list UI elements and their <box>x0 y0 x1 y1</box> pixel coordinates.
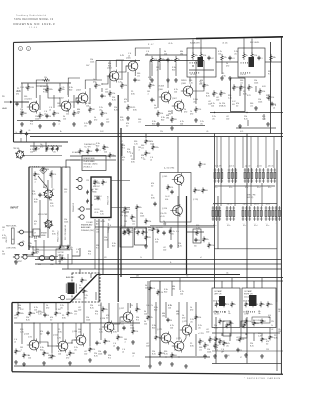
wire jacks to amp <box>54 257 56 259</box>
svg-text:2.2k: 2.2k <box>248 321 251 323</box>
svg-text:22k: 22k <box>120 215 123 217</box>
svg-text:S2 b: S2 b <box>227 225 230 227</box>
wire Q108 collector up <box>189 77 191 82</box>
svg-text:.1: .1 <box>34 182 36 184</box>
wire Q102 collector up <box>68 78 80 97</box>
svg-text:Q101: Q101 <box>27 99 32 101</box>
svg-text:8.2k: 8.2k <box>250 346 254 348</box>
svg-text:4.7k: 4.7k <box>53 174 56 176</box>
svg-text:10k: 10k <box>58 354 61 356</box>
svg-text:10k: 10k <box>2 238 5 240</box>
svg-text:R 1: R 1 <box>108 358 111 360</box>
svg-text:x2: x2 <box>14 342 16 344</box>
ground R218 <box>68 361 72 365</box>
svg-text:68k: 68k <box>273 57 276 59</box>
ground bottom right a <box>224 354 228 358</box>
resistor R296 in boxed B <box>243 322 246 328</box>
svg-text:Q 171: Q 171 <box>157 329 162 331</box>
resistor R245 in box2 <box>260 301 263 307</box>
svg-text:47k: 47k <box>16 94 19 96</box>
ground below R110 <box>88 120 92 124</box>
svg-text:EQUALIZER: EQUALIZER <box>190 42 200 45</box>
svg-text:120k: 120k <box>207 352 211 354</box>
resistor R218 <box>69 350 72 356</box>
capacitor C161 left of box <box>153 202 156 206</box>
resistor R141 left column <box>220 90 223 97</box>
svg-text:470: 470 <box>190 310 193 312</box>
junction dots bottom-left <box>47 345 48 346</box>
connector bias osc circle <box>68 283 75 295</box>
svg-text:OC613: OC613 <box>158 86 164 88</box>
svg-text:x2: x2 <box>113 346 115 348</box>
capacitor C121 in box <box>207 56 210 60</box>
svg-text:470: 470 <box>145 232 148 234</box>
bias osc dashed box <box>72 273 100 302</box>
resistor R248 <box>229 320 232 326</box>
svg-text:1k: 1k <box>140 257 142 259</box>
svg-text:1 (4.7k): 1 (4.7k) <box>224 355 230 357</box>
capacitor C102 <box>45 114 48 118</box>
ground R223 <box>116 346 120 350</box>
label box under-row left <box>252 317 270 323</box>
svg-text:22k x2: 22k x2 <box>244 296 249 298</box>
bottom-left section heavy border left <box>11 303 13 372</box>
svg-text:ADJ: ADJ <box>96 223 99 226</box>
svg-text:.1: .1 <box>138 150 140 152</box>
capacitor C122 <box>228 56 231 60</box>
ground below R123 <box>194 118 198 122</box>
svg-text:.05: .05 <box>84 298 87 300</box>
svg-text:120k: 120k <box>254 83 258 85</box>
svg-text:50: 50 <box>124 102 126 104</box>
wire bottom right rail <box>212 363 281 365</box>
output stage box 2 <box>242 288 276 328</box>
svg-text:10k: 10k <box>211 106 214 108</box>
resistor R184 <box>145 234 148 240</box>
svg-text:4.7k: 4.7k <box>104 113 107 115</box>
wire stage1 ground rail <box>17 120 60 122</box>
boxed resistor right <box>193 229 201 243</box>
svg-text:2.2k: 2.2k <box>135 331 138 333</box>
wire bias box up <box>79 269 81 274</box>
svg-text:3.3k: 3.3k <box>246 311 249 313</box>
resistor R194 <box>152 144 155 150</box>
svg-text:4.7k: 4.7k <box>268 315 271 317</box>
svg-text:1.2k: 1.2k <box>164 354 168 356</box>
svg-text:68k: 68k <box>258 311 261 313</box>
wire bus y269 <box>62 268 281 270</box>
svg-text:50: 50 <box>49 116 51 118</box>
wire right mid verticals <box>239 86 241 96</box>
svg-text:Tandberg Radiofabrikk: Tandberg Radiofabrikk <box>16 14 47 17</box>
resistor R107 <box>53 110 56 117</box>
wire bottom-middle verticals <box>147 281 149 314</box>
resistor R212 <box>55 310 58 316</box>
svg-text:470: 470 <box>40 147 43 149</box>
svg-text:(2 170): (2 170) <box>193 199 199 201</box>
svg-text:LOW LEVEL: LOW LEVEL <box>6 248 16 250</box>
wire Q171 to Q172 <box>170 341 174 344</box>
svg-text:x2: x2 <box>44 114 46 116</box>
wire Q106 to bus up <box>160 48 168 88</box>
svg-text:* DEPOSITED CARBON: * DEPOSITED CARBON <box>244 377 280 380</box>
svg-text:1.2k: 1.2k <box>271 97 274 99</box>
resistor R155 <box>87 148 90 154</box>
svg-text:1k: 1k <box>234 304 236 306</box>
svg-text:.1: .1 <box>57 106 59 108</box>
wire Q104 collector up <box>116 60 124 67</box>
wire bottom middle <box>145 356 210 358</box>
svg-text:470: 470 <box>163 224 166 226</box>
svg-text:8.2k: 8.2k <box>178 246 182 248</box>
transistor Q116 <box>102 321 114 334</box>
svg-text:1k: 1k <box>86 291 88 293</box>
transistor Q108 <box>181 85 193 98</box>
wire between boxes <box>216 61 238 63</box>
svg-text:6.8k: 6.8k <box>124 85 127 87</box>
wire box feeds <box>221 281 223 288</box>
svg-text:6.8k: 6.8k <box>62 318 66 320</box>
ground below R122 <box>170 126 174 130</box>
resistor R251 <box>261 336 264 342</box>
resistor R252 <box>269 334 272 340</box>
svg-text:.05: .05 <box>60 308 63 310</box>
svg-text:1.2k: 1.2k <box>20 332 24 334</box>
svg-text:1.2k: 1.2k <box>160 292 163 294</box>
resistor R215 <box>23 352 26 358</box>
svg-text:470: 470 <box>226 66 229 68</box>
svg-text:x2: x2 <box>130 156 132 158</box>
svg-text:Q106: Q106 <box>158 89 163 91</box>
svg-text:18k: 18k <box>258 313 261 315</box>
svg-text:68k: 68k <box>106 147 109 149</box>
svg-text:4.7: 4.7 <box>97 182 100 184</box>
svg-text:10k: 10k <box>243 87 246 89</box>
resistor R193 <box>145 150 148 156</box>
svg-text:6.8k: 6.8k <box>165 199 168 201</box>
svg-text:6.8k: 6.8k <box>17 91 21 93</box>
attenuator small box <box>33 229 40 236</box>
capacitor C142 in shield <box>96 196 99 200</box>
svg-text:S1 b: S1 b <box>229 187 232 189</box>
svg-text:470: 470 <box>79 288 82 290</box>
svg-text:.05 1k: .05 1k <box>168 43 173 45</box>
svg-text:10k: 10k <box>170 328 173 330</box>
transistor Q106 <box>159 91 171 104</box>
svg-text:47k: 47k <box>70 313 73 315</box>
svg-text:1.2k: 1.2k <box>38 314 42 316</box>
svg-text:4.7k: 4.7k <box>127 209 130 211</box>
svg-text:10k: 10k <box>70 247 73 249</box>
svg-text:100: 100 <box>105 92 108 94</box>
svg-text:Q104: Q104 <box>107 68 112 70</box>
wire head box leads <box>66 160 80 168</box>
capacitor C123 in box <box>257 56 260 60</box>
svg-text:18k: 18k <box>176 314 179 316</box>
connector mic filter circle <box>44 219 53 229</box>
jack J3 low level <box>18 242 24 246</box>
resistor R108 <box>59 86 62 93</box>
resistor R110 <box>89 106 92 113</box>
capacitor C151 <box>194 238 197 242</box>
wire bus y281 <box>150 280 283 282</box>
svg-text:Q103: Q103 <box>76 90 81 92</box>
svg-text:1.2k: 1.2k <box>99 332 103 334</box>
wire feeds above head box <box>33 142 35 152</box>
svg-text:4.7k: 4.7k <box>176 231 179 233</box>
resistor R142 in box <box>233 84 236 91</box>
wire stage2 verticals <box>89 88 91 104</box>
resistor R241 in box1 <box>223 301 226 307</box>
resistor R111 <box>95 82 98 89</box>
svg-text:10k: 10k <box>268 317 271 319</box>
resistor R233 <box>171 352 174 358</box>
ground R216 <box>42 361 46 365</box>
svg-text:22k: 22k <box>160 131 163 133</box>
svg-text:18k: 18k <box>148 230 151 232</box>
ground R219 <box>88 358 92 362</box>
svg-text:39k: 39k <box>62 89 65 91</box>
ground bottom right c <box>260 354 264 358</box>
capacitor C211 <box>46 331 49 335</box>
svg-text:10k: 10k <box>195 55 198 57</box>
svg-text:820: 820 <box>96 146 99 148</box>
transistor Q114 <box>56 340 68 353</box>
svg-text:470: 470 <box>148 237 151 239</box>
wire vertical x196 low <box>195 302 197 330</box>
ground below R102 <box>20 122 24 126</box>
transistor Q110 <box>170 204 182 217</box>
record level box <box>238 48 265 77</box>
svg-text:1.5k .02: 1.5k .02 <box>240 74 246 76</box>
svg-text:1k: 1k <box>131 232 133 234</box>
wire right edge top <box>265 61 281 63</box>
wire jack row to right <box>28 256 59 258</box>
svg-text:.01: .01 <box>96 232 99 234</box>
svg-text:10k: 10k <box>206 239 209 241</box>
resistor R112 <box>101 110 104 117</box>
svg-text:15k: 15k <box>223 93 226 95</box>
resistor R211 <box>29 310 32 316</box>
wire vertical x218 <box>217 196 219 249</box>
wire jack bus to bias <box>59 254 61 264</box>
resistor R135 <box>221 54 224 62</box>
svg-text:1k: 1k <box>251 87 253 89</box>
svg-text:TRK SEL: TRK SEL <box>13 148 20 150</box>
resistor R131 <box>159 56 162 64</box>
jack J1 high level <box>18 230 24 234</box>
wire supply rail stage2 <box>96 60 140 62</box>
head switch narrow box <box>62 167 70 246</box>
resistor R214 <box>15 348 18 354</box>
svg-text:Q 110: Q 110 <box>162 208 167 210</box>
resistor R130 <box>151 56 154 64</box>
wire bottom-left right part verticals <box>100 323 102 340</box>
switch cluster row1 c <box>244 168 253 183</box>
svg-text:.01: .01 <box>24 99 27 101</box>
wire in box <box>189 69 214 71</box>
svg-text:Q107: Q107 <box>172 98 177 100</box>
svg-text:HEAD: HEAD <box>92 191 97 194</box>
svg-text:S1 c: S1 c <box>245 187 248 189</box>
wire bus y259 <box>95 259 281 261</box>
transistor Q115 <box>74 334 86 347</box>
wire bottom right verticals <box>215 317 217 364</box>
transistor Q173 <box>180 324 192 337</box>
svg-text:1.2k: 1.2k <box>58 313 61 315</box>
transistor Q103 <box>76 92 88 105</box>
svg-text:10k: 10k <box>180 124 183 126</box>
svg-text:1.2k 4.7k: 1.2k 4.7k <box>146 305 153 307</box>
svg-text:120k: 120k <box>258 102 262 104</box>
svg-text:1k: 1k <box>134 217 136 219</box>
capacitor C101 <box>15 102 18 106</box>
svg-text:18k: 18k <box>166 118 169 120</box>
svg-text:HEAD: HEAD <box>2 107 8 110</box>
svg-text:470: 470 <box>236 87 239 89</box>
svg-text:C103 .05: C103 .05 <box>20 87 27 89</box>
wire vertical x247 <box>246 134 248 289</box>
resistor R151c <box>56 146 59 151</box>
quarter track switch box <box>56 249 72 264</box>
svg-text:12k: 12k <box>145 288 148 290</box>
capacitor C290 above border <box>25 132 28 136</box>
resistor R144 <box>248 84 251 91</box>
svg-text:10k: 10k <box>180 294 183 296</box>
svg-text:600: 600 <box>205 190 208 192</box>
svg-text:3.3k: 3.3k <box>203 55 206 57</box>
svg-text:(REC / PB: (REC / PB <box>247 195 256 197</box>
svg-text:.02: .02 <box>211 58 214 60</box>
svg-text:1.2k: 1.2k <box>100 214 104 216</box>
wire Q105 collector to bus <box>135 48 150 56</box>
svg-text:12k: 12k <box>66 114 69 116</box>
svg-text:6.8k: 6.8k <box>52 234 56 236</box>
resistor R216 <box>43 350 46 356</box>
svg-text:.05: .05 <box>212 119 215 121</box>
wire mid2 verticals <box>145 227 147 234</box>
wire jack drop wires <box>35 240 37 253</box>
svg-text:x2: x2 <box>221 352 223 354</box>
svg-text:100: 100 <box>106 122 109 124</box>
svg-text:R 1: R 1 <box>43 92 46 94</box>
resistor R105 <box>39 112 42 119</box>
svg-text:470: 470 <box>184 112 187 114</box>
jack J103 circle <box>76 185 82 189</box>
ground bank <box>203 354 207 358</box>
wire shield to right b <box>111 207 130 209</box>
svg-text:1k: 1k <box>54 356 56 358</box>
svg-text:120k: 120k <box>64 222 68 224</box>
svg-text:1.2k: 1.2k <box>134 144 138 146</box>
resistor R150 <box>35 146 38 151</box>
ground below R112 <box>100 122 104 126</box>
svg-text:470: 470 <box>104 257 107 259</box>
svg-text:.05: .05 <box>28 130 30 132</box>
svg-text:1/4 R20: 1/4 R20 <box>94 209 100 211</box>
parts left of shield <box>86 190 89 195</box>
wire input area <box>26 254 33 256</box>
switch cluster row2 d <box>253 206 262 221</box>
svg-text:470: 470 <box>182 318 185 320</box>
schematic right border <box>280 37 282 374</box>
svg-text:8.2k: 8.2k <box>244 119 248 121</box>
ground R215 <box>22 362 26 366</box>
jack J5 mic input b <box>21 255 27 259</box>
svg-text:47: 47 <box>38 149 40 151</box>
wire Q116 Q117 <box>113 317 123 324</box>
shield border middle heavy <box>97 274 240 276</box>
svg-text:.05: .05 <box>226 346 229 348</box>
svg-text:R 1: R 1 <box>136 320 139 322</box>
wire bottom right horizontal y351 <box>212 350 283 352</box>
svg-text:120k: 120k <box>278 331 282 333</box>
svg-text:1k .02: 1k .02 <box>165 196 170 198</box>
svg-text:10k: 10k <box>37 174 40 176</box>
ground R232 <box>158 361 162 365</box>
svg-text:8.2k: 8.2k <box>26 320 30 322</box>
electrolytic bank C235 <box>219 338 222 345</box>
svg-text:x 2.2k: x 2.2k <box>60 87 65 89</box>
svg-text:x2: x2 <box>150 160 152 162</box>
resistor R122 <box>171 116 174 123</box>
resistor R134 in box <box>200 52 203 60</box>
svg-text:REC LEVEL: REC LEVEL <box>250 42 259 44</box>
svg-text:6.8k: 6.8k <box>113 332 117 334</box>
ticks equalizer box <box>190 62 199 64</box>
svg-text:100: 100 <box>226 119 229 121</box>
svg-text:560: 560 <box>278 309 281 311</box>
svg-text:R 1: R 1 <box>108 66 111 68</box>
svg-text:100: 100 <box>146 346 149 348</box>
svg-text:.05: .05 <box>242 339 245 341</box>
svg-text:ERASER AND: ERASER AND <box>84 157 96 160</box>
svg-text:18k: 18k <box>180 54 183 56</box>
svg-text:.01 470: .01 470 <box>190 74 196 76</box>
ticks trk group <box>46 145 56 147</box>
wire eq row <box>70 155 116 157</box>
resistor R140 left column <box>213 90 216 97</box>
terminal marker 1 <box>19 47 23 51</box>
svg-text:560: 560 <box>92 109 95 111</box>
transistor Q117 <box>121 311 133 324</box>
svg-text:x2 .05: x2 .05 <box>160 216 165 218</box>
transformer core box1 <box>219 296 225 306</box>
wire flyback to bus <box>177 137 179 173</box>
svg-text:HIGH LEVEL: HIGH LEVEL <box>6 226 17 228</box>
svg-text:470: 470 <box>46 308 49 310</box>
svg-text:.05: .05 <box>190 322 193 324</box>
svg-text:1N34: 1N34 <box>45 169 49 171</box>
svg-text:1.5k: 1.5k <box>148 221 151 223</box>
svg-text:BIAS HEAD: BIAS HEAD <box>81 226 91 229</box>
svg-text:x2: x2 <box>76 252 78 254</box>
svg-text:1k: 1k <box>271 325 273 327</box>
svg-text:50: 50 <box>236 106 238 108</box>
switch cluster row2 b <box>226 206 235 221</box>
resistor R146 <box>268 94 271 101</box>
wire bus y277 <box>130 277 283 279</box>
svg-text:S2 e: S2 e <box>266 225 269 227</box>
record head switch box <box>29 167 61 247</box>
svg-text:820: 820 <box>161 120 164 122</box>
svg-text:x2: x2 <box>128 56 130 58</box>
svg-text:B+: B+ <box>60 131 62 133</box>
wire middle <box>121 211 129 213</box>
svg-text:2.2k: 2.2k <box>254 55 257 57</box>
junction dots box1 <box>216 311 217 312</box>
ground below R121 <box>156 122 160 126</box>
